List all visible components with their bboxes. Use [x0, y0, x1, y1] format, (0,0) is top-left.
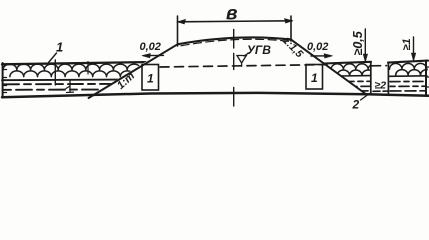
left strip turf arcs row 1	[3, 64, 141, 70]
road axis centerline segment 1	[233, 30, 235, 49]
block A mid line	[338, 75, 371, 77]
left embankment slope 1:m	[89, 44, 178, 98]
svg-text:≥2: ≥2	[375, 80, 387, 92]
leader line for label 1	[49, 53, 57, 63]
dimension B arrow left	[178, 19, 186, 24]
svg-text:≥0,5: ≥0,5	[351, 30, 365, 55]
svg-text:1: 1	[147, 72, 154, 86]
right edge ticks	[427, 67, 429, 87]
road axis centerline segment 2	[233, 54, 235, 70]
dimension B line	[178, 21, 293, 22]
road axis centerline segment 3	[233, 88, 235, 107]
left strip turf arcs row 2	[10, 71, 134, 77]
dimension B arrow right	[285, 19, 293, 24]
dimension B extension line right	[290, 16, 292, 41]
left slope direction arrow	[144, 54, 164, 56]
svg-text:УГВ: УГВ	[247, 43, 271, 57]
left strip mid line	[2, 79, 120, 82]
dimension B extension line left	[177, 16, 179, 46]
svg-text:2: 2	[352, 98, 360, 112]
block B mid line	[389, 75, 427, 78]
groundwater dashed line segment in gap	[372, 65, 387, 67]
hatch dashes in gap below label	[373, 90, 388, 92]
strip joint stroke 2	[87, 62, 89, 75]
leader line for label 2	[361, 94, 370, 101]
block A top ground line	[324, 62, 372, 64]
left edge ticks	[3, 70, 7, 93]
svg-text:0,02: 0,02	[307, 41, 328, 53]
block B top ground line	[388, 61, 428, 63]
dimension line >=1	[413, 37, 415, 60]
svg-text:1: 1	[56, 40, 63, 55]
block A turf arcs row 1	[331, 64, 381, 70]
block B right edge	[425, 61, 427, 96]
block B turf arcs row 2	[396, 70, 429, 75]
svg-text:≥1: ≥1	[401, 38, 413, 50]
left strip edge	[2, 63, 4, 98]
left strip water hatch row 2	[4, 89, 103, 91]
block A right edge	[370, 62, 372, 95]
svg-text:0,02: 0,02	[140, 41, 161, 53]
groundwater level symbol triangle	[237, 53, 250, 67]
right marker box	[306, 65, 323, 90]
block B water hatch rows	[390, 80, 426, 82]
bottom ground boundary line	[2, 93, 429, 97]
left strip water hatch row 1	[4, 83, 112, 85]
groundwater level dashed line УГВ	[160, 65, 327, 67]
right embankment slope 1:1,5	[291, 40, 367, 95]
strip small mark	[66, 81, 74, 93]
dashed line under crown	[181, 39, 289, 46]
block B left edge	[387, 63, 389, 95]
svg-text:в: в	[226, 4, 237, 25]
dimension line >=0,5	[364, 29, 366, 61]
block A turf arcs row 2	[337, 70, 374, 75]
left strip top ground line	[2, 62, 152, 64]
block B turf arcs row 1	[390, 63, 427, 69]
right slope direction arrow	[311, 55, 331, 57]
road crown top line	[178, 37, 292, 44]
strip joint stroke 1	[54, 60, 56, 85]
block A water hatch rows	[344, 80, 370, 82]
svg-text:1: 1	[311, 71, 318, 85]
left marker box	[142, 65, 159, 91]
